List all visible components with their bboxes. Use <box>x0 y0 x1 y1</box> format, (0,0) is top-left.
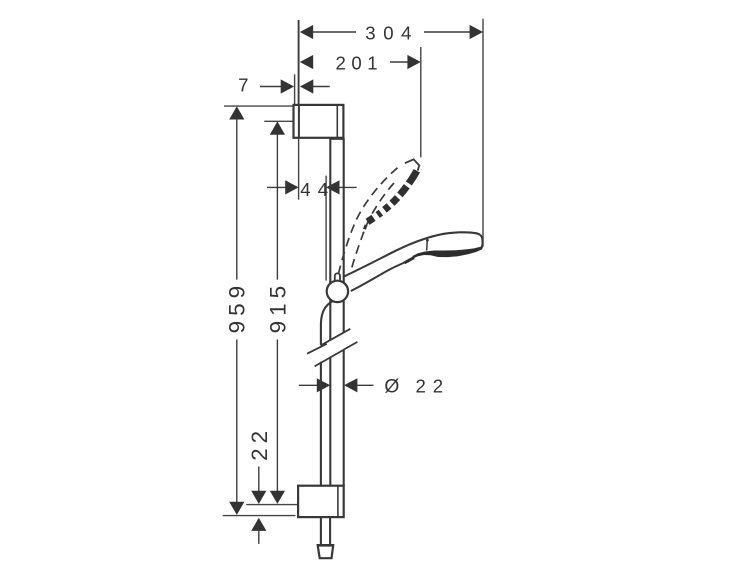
hose lower run left <box>320 517 322 544</box>
slide bar right edge <box>343 138 345 332</box>
extension line 44 right (x=326.1) <box>325 176 327 281</box>
wall bracket top inner line <box>336 105 338 138</box>
hand shower face tick <box>426 241 429 250</box>
extension line 201 right (x=420.8) <box>420 47 422 157</box>
dimension 22 (vertical, bottom) <box>247 426 272 544</box>
hose lower run right <box>329 517 331 544</box>
extension line 44 left (x=298.6 below bracket) <box>298 138 300 200</box>
dashed hand shower inner contour <box>351 183 394 272</box>
dimension 44 <box>267 179 357 200</box>
dimension 915 (vertical) <box>266 121 291 504</box>
dashed hand shower head cap <box>405 159 419 170</box>
svg-text:22: 22 <box>416 376 450 397</box>
extension line 304 right (x=483) <box>482 19 484 247</box>
svg-text:Ø: Ø <box>384 377 399 398</box>
extension line bar bottom (horizontal y=515.6) <box>223 515 296 517</box>
slider pin <box>335 273 340 282</box>
extension line bottom hole center (horizontal y=504.6) <box>246 504 298 506</box>
break mark lower <box>315 350 345 367</box>
hand shower body (white fill) <box>344 232 482 291</box>
dimension 959 (vertical) <box>225 106 250 515</box>
svg-text:304: 304 <box>365 23 419 44</box>
wall bracket top <box>294 105 344 138</box>
hand shower neck shadow tail <box>405 258 415 263</box>
hand shower top outline <box>344 232 480 276</box>
hand shower spray face band <box>413 246 483 258</box>
dashed hand shower outer contour <box>338 168 397 274</box>
hose end cone top edge <box>317 544 334 547</box>
wall bracket bottom <box>298 486 344 517</box>
svg-text:915: 915 <box>266 281 291 334</box>
dimension diameter 22 <box>299 376 450 398</box>
extension line wall face (vertical, x=298.6, top) <box>298 20 300 105</box>
dashed hand shower spray face blobs <box>368 171 417 222</box>
bar shoulder under top bracket <box>330 138 343 140</box>
extension line top hole center (horizontal y=121.3) <box>264 120 294 122</box>
dimension 201 <box>300 53 421 74</box>
svg-text:7: 7 <box>238 75 248 96</box>
wall bracket top plate inner line <box>298 105 300 138</box>
dimension 304 <box>300 23 483 44</box>
hose end cone <box>318 545 334 558</box>
slider knob <box>327 281 348 302</box>
svg-text:22: 22 <box>247 426 272 461</box>
dimension 7 <box>238 75 330 96</box>
shower hose upper run <box>321 301 334 346</box>
extension line bracket top (horizontal y=106.1) <box>224 105 293 107</box>
svg-text:201: 201 <box>336 53 384 74</box>
extension line wall plate outer (x=294.6) <box>294 74 296 105</box>
slide bar left edge <box>329 138 331 340</box>
wall bracket bottom inner line <box>337 486 339 517</box>
hand shower handle bottom outline <box>351 262 407 291</box>
break mark upper <box>307 344 327 354</box>
hand shower head right edge <box>480 235 482 248</box>
svg-text:959: 959 <box>225 281 250 334</box>
